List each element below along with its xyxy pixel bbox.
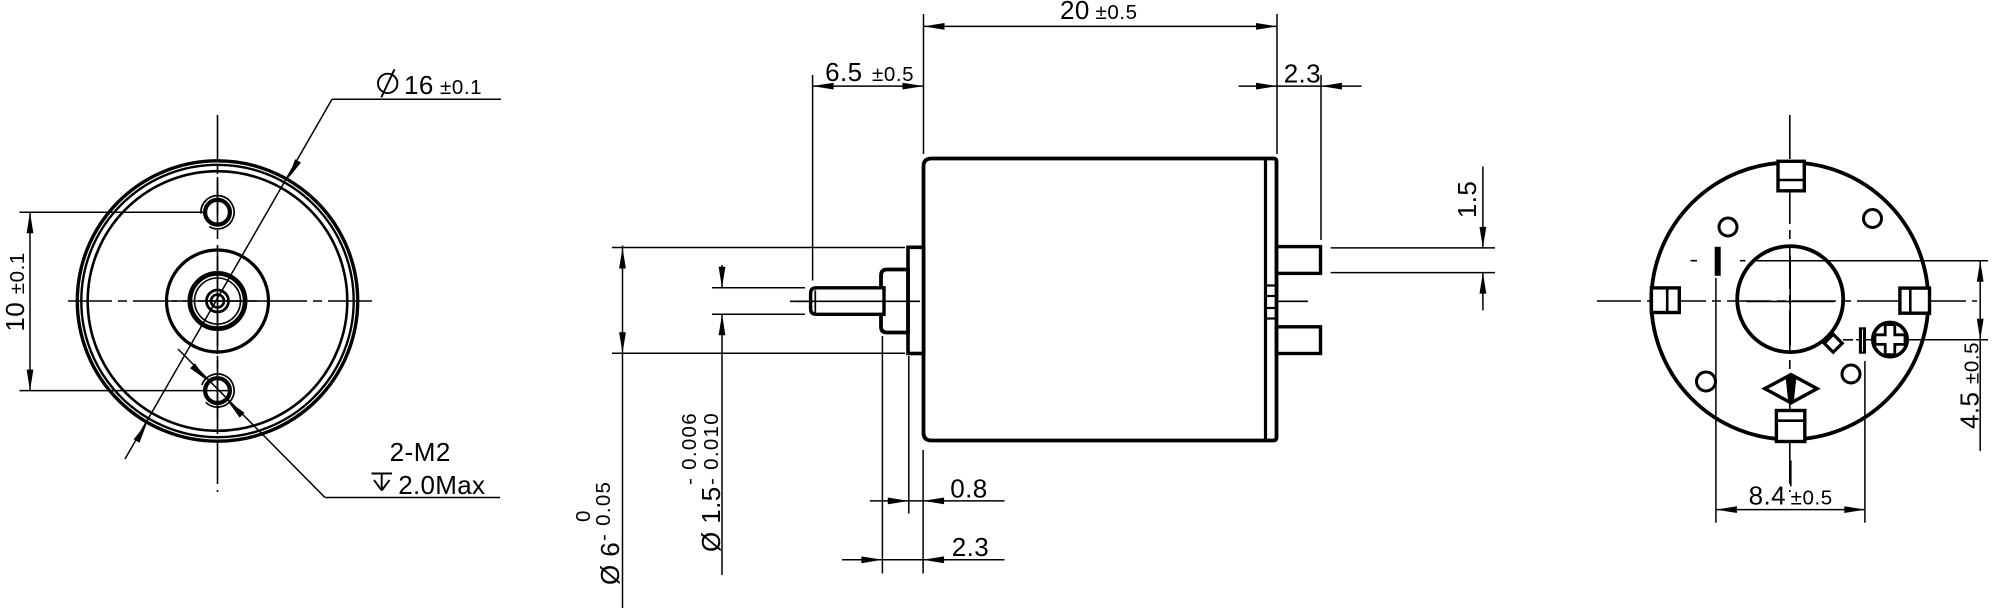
brush slot right — [1859, 327, 1866, 353]
leader 2-M2 line — [178, 349, 325, 498]
dim 20/6.5 extension at body face — [923, 14, 925, 154]
crimp tab top — [1778, 161, 1804, 191]
dim 6.5 line — [813, 85, 924, 87]
boss crosshair — [172, 300, 263, 302]
front flange — [908, 247, 924, 353]
dim dia1.5 extension top — [712, 287, 805, 289]
leader dia16 line — [125, 99, 332, 459]
dim 4.5 extension upper (slot centerline) — [1691, 260, 1698, 262]
dim 2.3 bottom extension left — [881, 336, 883, 574]
rear outer circle — [1651, 163, 1928, 440]
svg-text:8.4: 8.4 — [1749, 481, 1786, 511]
svg-text:16: 16 — [404, 70, 434, 100]
dim 10 extension bottom — [20, 390, 232, 392]
dim 0.8 line — [870, 500, 1005, 502]
depth symbol — [372, 473, 393, 475]
vent hole lower right — [1842, 365, 1860, 383]
dim dia6 extension top — [612, 247, 905, 249]
dim dia6 line — [622, 246, 624, 608]
vent hole upper right — [1864, 210, 1882, 228]
svg-text:1.5: 1.5 — [1452, 181, 1482, 218]
opening crosshair — [1789, 257, 1791, 346]
commutator opening — [1737, 246, 1843, 352]
dim 0.8 extension left — [908, 356, 910, 514]
dim 4.5 line — [1979, 261, 1981, 451]
bottom tab centerline dash — [1790, 460, 1792, 486]
case lip circle — [88, 171, 348, 431]
front view: motor front face — [0, 69, 501, 500]
M2 tapped hole — [205, 200, 230, 225]
svg-text:2.3: 2.3 — [1284, 58, 1321, 88]
adjust screw — [1873, 322, 1907, 356]
dim dia1.5 line — [721, 265, 723, 288]
dim 1.5 line lower — [1482, 273, 1484, 311]
bearing boss circle — [167, 250, 269, 352]
shaft circle — [211, 295, 224, 308]
dim 6.5 extension at shaft tip — [812, 75, 814, 281]
M2 tapped hole — [205, 378, 230, 403]
centerline horizontal front — [68, 300, 372, 302]
dim dia1.5 extension bottom — [712, 313, 805, 315]
dim 8.4 extension right — [1864, 361, 1866, 523]
opening notch diamond — [1824, 334, 1842, 352]
shaft centerline segment — [795, 300, 920, 302]
svg-text:2-M2: 2-M2 — [390, 437, 451, 467]
outer case inner ring — [81, 165, 353, 437]
dim 8.4 line — [1716, 509, 1865, 511]
dim 10 line — [29, 212, 31, 390]
dim dia6 extension bottom — [612, 352, 905, 354]
dim 8.4 extension left — [1715, 278, 1717, 523]
dim 1.5 extension bottom — [1331, 272, 1495, 274]
svg-text:±0.1: ±0.1 — [440, 76, 482, 99]
dim 1.5 extension top — [1331, 247, 1495, 249]
svg-text:2.3: 2.3 — [952, 532, 989, 562]
side view: motor body — [572, 0, 1495, 608]
outer case circle — [77, 161, 357, 441]
crimp tab bottom — [1776, 411, 1804, 442]
crimp tab right — [1900, 288, 1930, 313]
bearing retainer top — [1266, 286, 1278, 297]
brush slot left — [1715, 247, 1721, 276]
svg-text:±0.5: ±0.5 — [1791, 487, 1833, 510]
svg-text:20: 20 — [1060, 0, 1090, 25]
shaft — [811, 288, 884, 315]
top hole crosshair — [217, 177, 219, 215]
terminal tab top — [1277, 247, 1321, 274]
dim 1.5 line upper — [1482, 167, 1484, 248]
axis centerline — [790, 300, 1308, 302]
dim 2.3 top extension — [1320, 75, 1322, 240]
bottom hole crosshair — [217, 356, 219, 425]
anchor diamond — [1765, 375, 1817, 403]
shaft chamfer line — [814, 290, 816, 312]
svg-text:2.0Max: 2.0Max — [398, 470, 485, 500]
shaft collar — [881, 270, 908, 333]
crimp tab left — [1651, 288, 1679, 313]
dim 2.3 bottom line — [842, 559, 1005, 561]
bearing retainer bottom — [1266, 308, 1278, 319]
svg-text:0.8: 0.8 — [950, 473, 987, 503]
shaft hole circle — [207, 290, 229, 312]
label dia 16 +-0.1 — [378, 74, 397, 93]
terminal tab bottom — [1277, 327, 1321, 354]
dim 20 line — [924, 25, 1278, 27]
vent hole upper left — [1719, 218, 1737, 236]
svg-text:±0.5: ±0.5 — [1096, 1, 1138, 24]
bearing ring thin — [195, 278, 241, 324]
rear view: motor back cap — [1597, 115, 1988, 523]
end cap seam — [1264, 160, 1267, 439]
dim 4.5 extension lower (screw centerline) — [1843, 339, 1853, 341]
dim 20/2.3 extension at body rear — [1276, 14, 1278, 154]
dim 0.8/2.3 extension at face — [922, 450, 924, 574]
vent hole lower left — [1697, 372, 1716, 391]
centerline vertical rear — [1789, 115, 1791, 492]
svg-text:±0.5: ±0.5 — [872, 63, 914, 86]
dim 10 extension top — [20, 211, 206, 213]
centerline vertical front — [217, 115, 219, 492]
motor body outline — [924, 159, 1277, 441]
dim 2.3 top line — [1239, 85, 1362, 87]
bearing ring thick — [190, 273, 245, 328]
centerline horizontal rear — [1597, 300, 1977, 302]
svg-text:6.5: 6.5 — [825, 57, 862, 87]
